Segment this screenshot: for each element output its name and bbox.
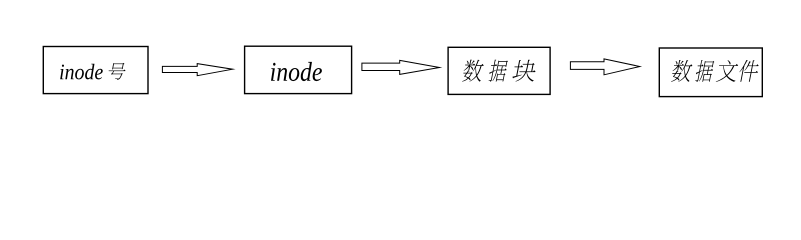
- label: 数 (box 3): [462, 60, 485, 82]
- label: 文 (box 4): [716, 60, 740, 82]
- label: inode (box 2): [271, 62, 322, 81]
- arrow 2: [362, 60, 440, 74]
- box 1: inode号: [43, 47, 148, 94]
- label: 号 (box 1): [107, 63, 127, 80]
- flow diagram: inode号 -> inode -> 数据块 -> 数据文件: [0, 0, 801, 129]
- label: inode (box 1): [60, 64, 103, 80]
- label: 数 (box 4): [670, 60, 693, 82]
- arrow 1: [162, 64, 232, 76]
- label: 件 (box 4): [737, 60, 760, 82]
- label: 块 (box 3): [512, 60, 538, 82]
- label: 据 (box 3): [488, 60, 509, 82]
- box 3: 数据块: [448, 47, 550, 94]
- box 2: inode: [245, 46, 352, 93]
- label: 据 (box 4): [694, 60, 715, 82]
- arrow 3: [570, 59, 639, 75]
- box 4: 数据文件: [659, 48, 762, 97]
